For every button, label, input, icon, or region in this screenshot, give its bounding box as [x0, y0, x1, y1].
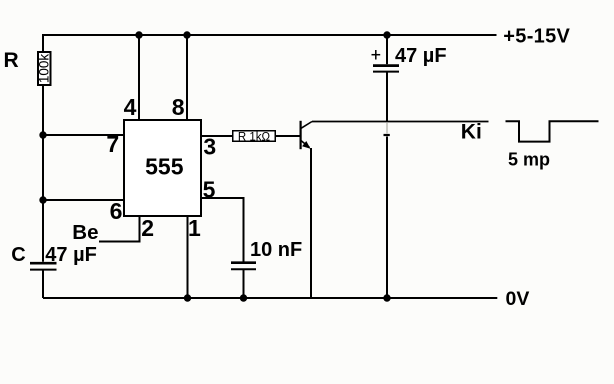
svg-text:47 µF: 47 µF: [45, 244, 97, 266]
svg-text:6: 6: [110, 198, 123, 224]
svg-text:R 1kΩ: R 1kΩ: [238, 131, 271, 143]
node junction top rail pin4: [135, 31, 142, 38]
svg-text:2: 2: [141, 215, 154, 241]
capacitor C2 polarity plus vertical: [375, 50, 377, 60]
capacitor C1 47uF bottom plate: [30, 269, 57, 271]
node junction top rail capacitor C2: [383, 31, 390, 38]
svg-text:0V: 0V: [506, 288, 530, 310]
wire bottom 0V rail: [43, 297, 497, 299]
wire pin 5 to capacitor 10nF: [202, 198, 244, 262]
wire faint crossing segment: [386, 123, 388, 134]
wire pin 1 to 0V rail: [187, 217, 189, 298]
svg-text:Be: Be: [72, 221, 98, 244]
node junction 0V rail pin1: [184, 294, 191, 301]
node junction 0V rail capacitor C2: [383, 294, 390, 301]
wire top rail to capacitor C2: [386, 35, 388, 64]
svg-text:5 mp: 5 mp: [508, 150, 550, 170]
svg-text:4: 4: [124, 94, 137, 120]
resistor R1 100k body: [38, 52, 51, 85]
wire capacitor C2 down to crossing: [386, 73, 388, 123]
wire pin 2 to Be stub: [99, 217, 140, 242]
wire pin 7 to left rail: [43, 134, 123, 136]
resistor R2 1k body: [233, 131, 276, 142]
transistor Q1 collector stroke: [301, 122, 312, 129]
capacitor C2 47uF bottom plate: [373, 71, 399, 73]
wire pin 3 to resistor R2: [202, 135, 232, 137]
transistor Q1 emitter stroke: [301, 140, 310, 147]
svg-text:7: 7: [106, 131, 119, 157]
wire pin 4 to top rail: [138, 35, 140, 119]
op-amp-style IC U1 555 body: [124, 120, 201, 216]
wire left rail lower segment below capacitor C: [42, 271, 44, 299]
capacitor C2 polarity plus horizontal: [372, 54, 381, 56]
wire top +5-15V rail: [43, 34, 497, 36]
svg-text:R: R: [4, 49, 19, 72]
node junction left rail pin7: [39, 131, 46, 138]
wire pin 6 to left rail: [43, 199, 123, 201]
svg-text:5: 5: [203, 176, 216, 202]
transistor Q1 emitter arrowhead: [302, 141, 310, 149]
wire transistor emitter to 0V rail: [310, 148, 312, 298]
svg-text:10 nF: 10 nF: [250, 239, 302, 261]
node junction top rail pin8: [183, 31, 190, 38]
wire left rail upper segment: [42, 34, 44, 51]
svg-text:1: 1: [188, 215, 201, 241]
capacitor C3 10nF top plate: [231, 261, 256, 264]
wire transistor collector to Ki output: [312, 121, 489, 123]
wire pin 8 to top rail: [186, 35, 188, 119]
capacitor C3 10nF bottom plate: [231, 268, 256, 270]
svg-text:Ki: Ki: [461, 121, 482, 144]
node junction left rail pin6: [39, 196, 46, 203]
capacitor C1 47uF top plate: [30, 262, 57, 265]
wire crossing tick: [384, 134, 390, 136]
node junction 0V rail 10nF: [240, 294, 247, 301]
wire capacitor 10nF to 0V rail: [243, 270, 245, 298]
svg-text:3: 3: [203, 133, 216, 159]
wire capacitor C2 to 0V rail: [386, 137, 388, 299]
capacitor C2 47uF top plate: [373, 64, 399, 67]
svg-text:555: 555: [145, 154, 184, 180]
svg-text:8: 8: [172, 94, 185, 120]
transistor Q1 base bar: [300, 121, 302, 149]
svg-text:+5-15V: +5-15V: [503, 26, 570, 48]
svg-text:100k: 100k: [37, 54, 52, 84]
svg-text:47 µF: 47 µF: [395, 45, 447, 67]
wire left rail middle segment: [42, 86, 44, 262]
svg-text:C: C: [11, 244, 25, 266]
waveform pulse 5 mp: [506, 121, 599, 141]
wire resistor R2 to transistor base: [276, 135, 301, 137]
